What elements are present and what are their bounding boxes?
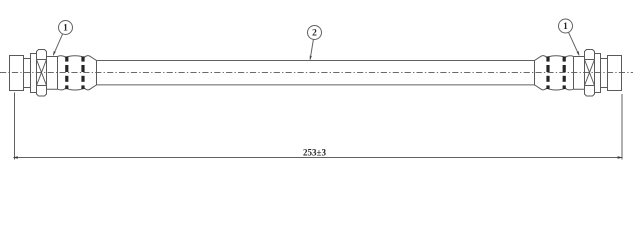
- right neck: [601, 59, 608, 88]
- left sleeve collar line: [57, 57, 59, 90]
- right crimp sleeve outline: [535, 56, 585, 90]
- right hex nut top face: [585, 50, 595, 60]
- right sleeve collar line: [573, 57, 575, 90]
- balloon 2 leader: [310, 39, 313, 59]
- hose part 2 top edge: [97, 60, 535, 62]
- svg-text:1: 1: [563, 22, 568, 32]
- dimension extension line right: [621, 94, 623, 160]
- balloon 1 left circle: [59, 21, 73, 35]
- left end cylinder: [10, 56, 24, 91]
- hose part 2 bottom edge: [97, 84, 535, 86]
- balloon 1 left leader: [53, 34, 62, 55]
- right crimp groove band 1: [563, 56, 566, 89]
- left hex nut top face: [37, 50, 47, 60]
- right hex nut body with X: [585, 60, 595, 86]
- left hex nut bottom face: [37, 86, 47, 97]
- balloon 1 left leader arrowhead: [53, 51, 56, 56]
- balloon 2 leader arrowhead: [310, 56, 312, 61]
- dimension arrowhead right: [618, 156, 623, 159]
- dimension extension line left: [14, 93, 16, 160]
- svg-text:2: 2: [312, 29, 317, 39]
- left crimp groove band 1: [65, 56, 68, 89]
- dimension line 253±3: [15, 157, 623, 159]
- left flange washer: [31, 54, 37, 93]
- balloon 2 circle: [308, 26, 322, 40]
- right flange washer: [595, 54, 601, 93]
- svg-text:1: 1: [63, 24, 68, 34]
- left hex nut body with X: [37, 60, 47, 86]
- left crimp groove band 2: [81, 56, 84, 89]
- svg-text:253±3: 253±3: [303, 147, 326, 157]
- left neck: [24, 59, 31, 88]
- balloon 1 right leader: [569, 32, 580, 55]
- right fitting (mirror of left): [535, 50, 622, 97]
- centerline (dash-dot axis): [0, 72, 633, 74]
- right end cylinder: [608, 56, 622, 91]
- right hex nut bottom face: [585, 86, 595, 97]
- balloon 1 right leader arrowhead: [577, 51, 580, 56]
- left fitting: [10, 50, 97, 97]
- left crimp sleeve outline: [47, 56, 97, 90]
- balloon 1 right circle: [559, 19, 573, 33]
- right crimp groove band 2: [546, 56, 549, 89]
- dimension arrowhead left: [13, 156, 18, 159]
